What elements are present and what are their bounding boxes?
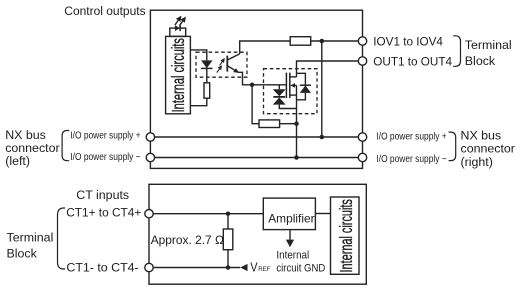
- body diode branch: [297, 73, 306, 85]
- svg-text:CT1- to CT4-: CT1- to CT4-: [66, 260, 138, 274]
- svg-text:connector: connector: [461, 142, 515, 156]
- junction: gate node: [250, 83, 255, 88]
- bracket: NX bus connector left: [62, 131, 69, 161]
- wire: LED cathode to resistor: [206, 68, 208, 82]
- junction: - rail node: [294, 155, 299, 160]
- wire: resistor to IOV1 terminal: [311, 40, 363, 42]
- svg-text:circuit GND: circuit GND: [276, 263, 325, 275]
- terminal: IOV1 to IOV4: [358, 37, 366, 45]
- terminal: CT1- to CT4-: [145, 263, 153, 271]
- svg-text:Amplifier: Amplifier: [268, 211, 314, 225]
- optocoupler light arrows: [217, 65, 222, 72]
- junction: source node: [294, 121, 299, 126]
- svg-text:Internal: Internal: [276, 249, 309, 262]
- MOSFET source stub: [290, 94, 297, 96]
- arrow: Vref: [240, 264, 247, 271]
- svg-text:OUT1 to OUT4: OUT1 to OUT4: [373, 54, 452, 68]
- svg-text:Control outputs: Control outputs: [64, 4, 145, 18]
- svg-text:IOV1 to IOV4: IOV1 to IOV4: [373, 34, 443, 48]
- svg-text:Internal circuits: Internal circuits: [337, 199, 356, 272]
- outer box: control outputs section: [150, 10, 362, 168]
- phototransistor: [226, 56, 228, 72]
- TVS zener pair (gate protection): [278, 85, 280, 89]
- svg-text:(left): (left): [5, 154, 30, 168]
- wire: gate node to MOSFET gate: [252, 84, 286, 86]
- junction: CT- node: [226, 265, 231, 270]
- svg-text:I/O power supply −: I/O power supply −: [376, 154, 446, 165]
- bracket: terminal block (CT): [58, 208, 66, 269]
- terminal: OUT1 to OUT4: [358, 57, 366, 65]
- MOSFET drain stub: [290, 76, 297, 78]
- svg-text:NX bus: NX bus: [5, 128, 46, 142]
- MOSFET Q1: [286, 73, 289, 99]
- arrow: internal circuit GND: [289, 230, 291, 241]
- Internal circuits box (bottom): [331, 197, 360, 274]
- wire: MOSFET source vertical: [296, 85, 298, 123]
- wire: emitter to gate node: [238, 72, 252, 85]
- svg-text:REF: REF: [258, 266, 270, 273]
- svg-text:I/O power supply +: I/O power supply +: [376, 131, 446, 142]
- wire: pulldown resistor to source node: [280, 123, 297, 125]
- wire: I/O power supply + rail (y=137): [150, 136, 362, 138]
- svg-text:Internal circuits: Internal circuits: [170, 38, 189, 112]
- wire: burden resistor to CT- line: [227, 250, 229, 268]
- optocoupler dashed box: [196, 52, 247, 77]
- bracket: NX bus connector right: [449, 132, 456, 160]
- wire: amplifier to internal circuits: [315, 213, 330, 215]
- MOSFET body stub with arrow: [293, 84, 296, 86]
- svg-text:I/O power supply −: I/O power supply −: [70, 151, 140, 162]
- Internal circuits box (top): [166, 36, 191, 113]
- resistor: burden approx 2.7 ohm: [223, 229, 233, 250]
- svg-text:CT1+ to CT4+: CT1+ to CT4+: [66, 205, 141, 219]
- resistor: IOV series resistor: [290, 37, 311, 46]
- wire: resistor back to internal circuits: [190, 98, 206, 106]
- MOSFET dashed box: [264, 69, 318, 114]
- phototransistor emitter arrow: [233, 68, 239, 73]
- terminal: CT1+ to CT4+: [145, 210, 153, 218]
- outer box: CT inputs section: [149, 184, 366, 284]
- wire: internal circuits to optocoupler LED anode: [190, 50, 206, 61]
- junction: CT+ node: [226, 211, 231, 216]
- svg-text:connector: connector: [5, 141, 59, 155]
- terminal: I/O power supply + (left): [146, 133, 154, 141]
- indicator LED diode: [175, 25, 180, 31]
- junction: IOV node: [320, 39, 325, 44]
- terminal: I/O power supply + (right): [358, 133, 366, 141]
- svg-text:NX bus: NX bus: [461, 129, 502, 143]
- wire: OUT1 line from MOSFET drain: [297, 61, 363, 77]
- svg-text:Approx. 2.7 Ω: Approx. 2.7 Ω: [151, 233, 224, 247]
- amplifier box U1: [263, 198, 315, 230]
- resistor: LED current limiting (vertical): [204, 83, 210, 98]
- wire: phototransistor collector to IOV series resistor: [240, 41, 291, 54]
- svg-text:Block: Block: [465, 54, 496, 68]
- svg-text:I/O power supply +: I/O power supply +: [70, 130, 140, 141]
- wire: I/O power supply - rail (y=157.5): [150, 157, 362, 159]
- wire: CT+ line: [149, 213, 263, 215]
- svg-text:(right): (right): [461, 155, 493, 169]
- svg-text:CT inputs: CT inputs: [76, 188, 129, 202]
- svg-text:Block: Block: [7, 247, 38, 261]
- svg-text:Terminal: Terminal: [7, 231, 54, 245]
- wire: gate node down to pulldown resistor: [252, 85, 259, 124]
- terminal: I/O power supply - (left): [146, 153, 154, 161]
- wire: CT- line: [149, 267, 240, 269]
- wire: CT+ node down to burden resistor: [227, 214, 229, 229]
- svg-text:Terminal: Terminal: [465, 38, 512, 52]
- bracket: terminal block (IOV/OUT): [453, 36, 460, 67]
- wire: IOV node down to + rail: [321, 41, 323, 137]
- indicator LED housing: [170, 28, 186, 36]
- terminal: I/O power supply - (right): [358, 153, 366, 161]
- junction: + rail node: [320, 135, 325, 140]
- resistor: gate pulldown: [259, 120, 280, 128]
- wire: source node to - rail: [296, 124, 298, 158]
- optocoupler LED: [201, 60, 212, 68]
- svg-text:V: V: [250, 261, 257, 275]
